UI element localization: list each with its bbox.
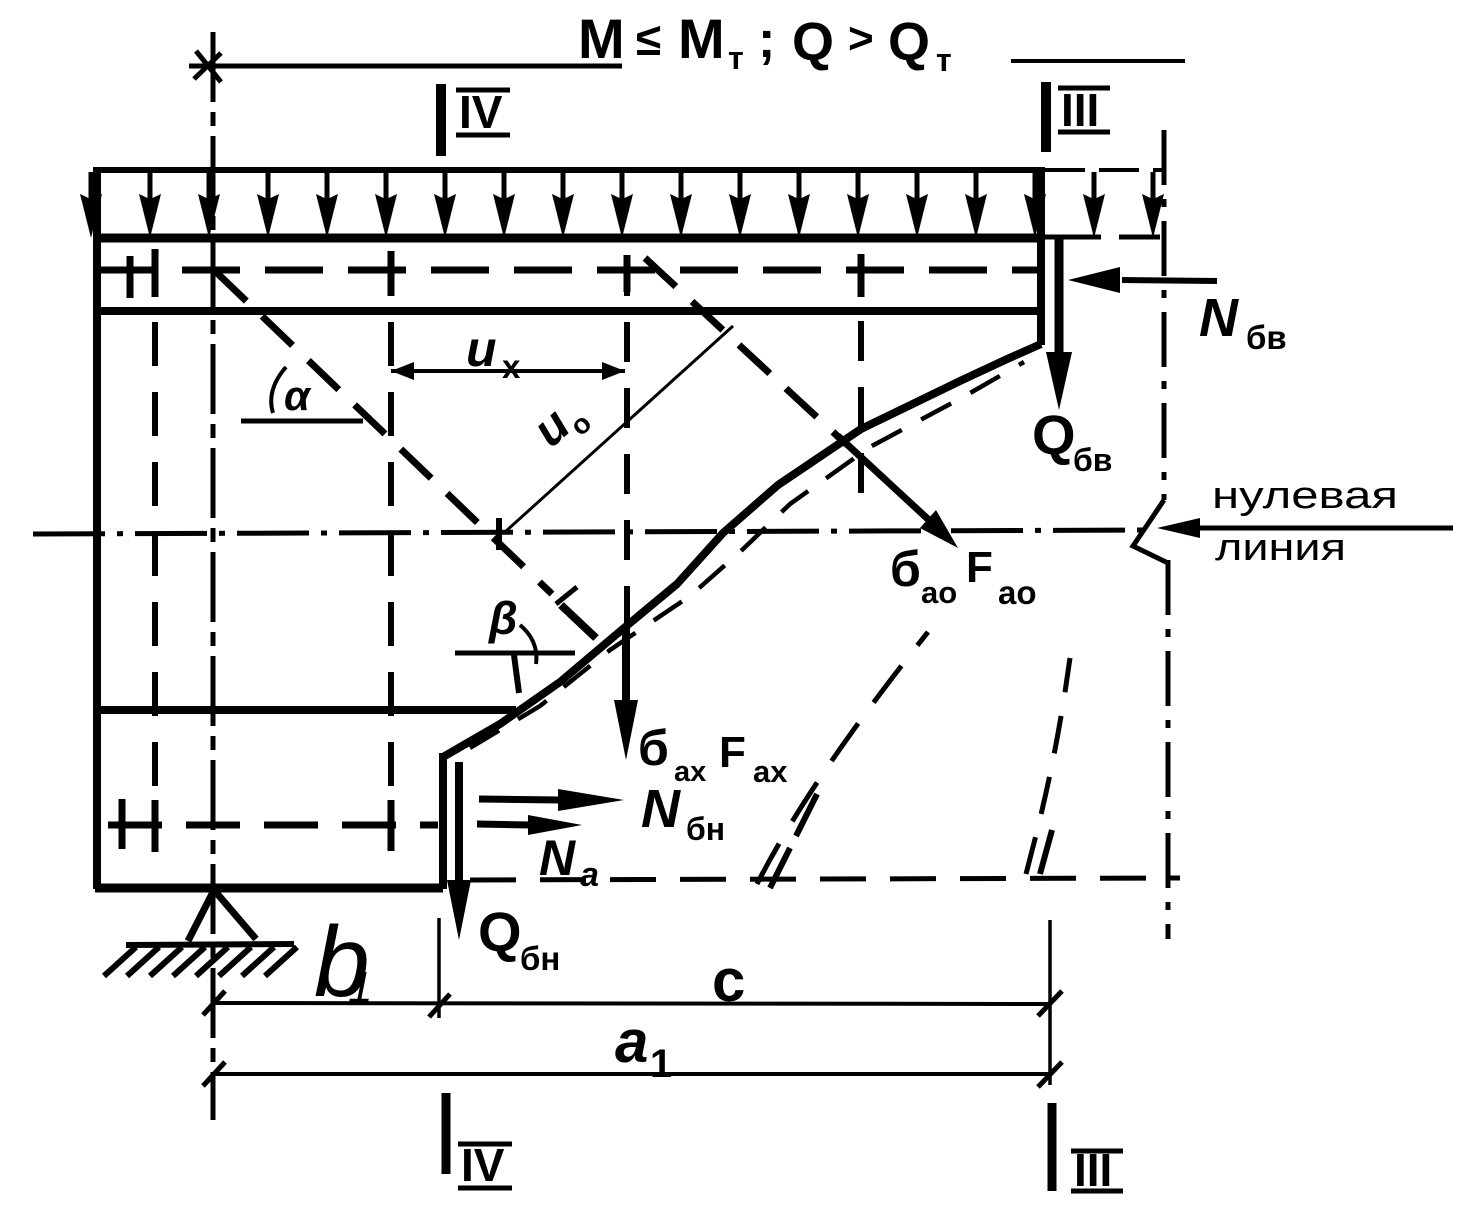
svg-text:β: β	[488, 592, 518, 644]
svg-text:M: M	[578, 7, 625, 70]
angle alpha: horizontal reference line	[241, 419, 363, 424]
load arrow 12	[729, 172, 751, 238]
svg-text:u: u	[466, 321, 497, 377]
stirrup tick on bottom rebar x155	[152, 800, 159, 852]
label alpha	[284, 372, 312, 419]
label nulevaya liniya	[1212, 475, 1398, 569]
stirrup tick on rebar x861	[858, 254, 865, 297]
support triangle	[188, 890, 256, 941]
label beta	[488, 592, 518, 644]
bottom rebar anchor tick	[119, 799, 126, 849]
label v1	[314, 906, 372, 1018]
angle alpha: arc	[271, 367, 286, 413]
zero line right vertical dash-dot x1164	[1164, 130, 1168, 939]
load arrow 15	[906, 172, 928, 238]
load arrow 9	[552, 172, 574, 238]
svg-text:a: a	[615, 1008, 648, 1075]
u_x dimension line	[391, 369, 625, 373]
beam top face	[97, 234, 1041, 243]
distributed load top line	[93, 167, 1045, 173]
bent bar 2 dashed diagonal	[645, 258, 846, 444]
load arrow 19	[1142, 172, 1164, 238]
force N_bv arrow	[1122, 280, 1217, 281]
stirrup tick on rebar x155	[152, 249, 159, 297]
top dimension line left part	[207, 64, 622, 69]
label c	[712, 947, 745, 1014]
svg-text:б: б	[890, 541, 921, 597]
stirrup dashed vertical x627 upper part	[624, 256, 630, 628]
label Q_bv	[1032, 403, 1112, 478]
svg-text:т: т	[936, 42, 952, 78]
svg-text:≤: ≤	[636, 13, 661, 65]
svg-text:x: x	[502, 348, 521, 385]
beam left edge	[93, 167, 101, 889]
slash tick a1 left	[203, 1062, 225, 1086]
bottom flange top line	[97, 706, 516, 714]
support centerline dash-dot x213	[211, 32, 216, 1120]
slash tick v1 left	[203, 991, 225, 1015]
support ground line	[126, 944, 294, 945]
bent bar 1 solid end segment	[561, 605, 596, 638]
section III top: bar	[1041, 82, 1051, 152]
svg-text:бв: бв	[1246, 319, 1287, 356]
load arrow 3	[198, 172, 220, 238]
stirrup dashed vertical x155	[152, 252, 158, 852]
beam right edge	[1037, 167, 1045, 345]
lower dashed crack curve 2 second lip	[1040, 830, 1052, 874]
star marker at support centerline top	[189, 51, 227, 82]
bent bar 1 end tick	[556, 587, 577, 604]
svg-text:б: б	[638, 720, 669, 776]
stirrup dashed vertical x391	[388, 252, 394, 850]
distributed load arrows	[80, 172, 1164, 238]
bottom line of top flange	[97, 307, 1041, 315]
force Q_bv arrow	[1055, 239, 1064, 360]
svg-text:N: N	[641, 779, 681, 839]
section III bottom: bar	[1048, 1103, 1057, 1191]
svg-text:IV: IV	[459, 86, 503, 138]
angle beta: arc	[520, 625, 536, 664]
formula M<=Mt ; Q>Qt	[578, 7, 952, 78]
label u_x	[466, 321, 521, 385]
dimension boundary x439	[437, 918, 441, 1018]
load arrow 16	[965, 172, 987, 238]
svg-text:M: M	[678, 7, 725, 70]
slash tick at x439	[429, 994, 450, 1017]
svg-text:т: т	[728, 40, 744, 76]
svg-text:III: III	[1061, 84, 1099, 136]
force sigma_ax F_ax arrow (stirrup force)	[622, 628, 630, 708]
crack parallel dashed lip	[470, 362, 1024, 748]
svg-text:Q: Q	[792, 12, 834, 72]
inclined crack main line	[443, 344, 1041, 757]
svg-text:бв: бв	[1073, 442, 1112, 478]
load arrow 17	[1024, 172, 1046, 238]
svg-text:IV: IV	[461, 1139, 505, 1191]
label a1	[615, 1008, 672, 1086]
svg-text:Q: Q	[478, 900, 522, 963]
load arrow 13	[788, 172, 810, 238]
stirrup tick on rebar x391	[388, 251, 395, 296]
load arrow 11	[670, 172, 692, 238]
svg-text:ах: ах	[753, 754, 788, 789]
section IV top: label	[459, 86, 503, 138]
svg-text:Q: Q	[1032, 403, 1076, 466]
slash tick c right	[1038, 991, 1062, 1016]
svg-text:нулевая: нулевая	[1212, 475, 1398, 517]
load arrow 1	[80, 172, 102, 238]
zero line dash-dot	[33, 530, 1148, 534]
svg-text:ао: ао	[921, 575, 957, 610]
svg-text:ао: ао	[998, 574, 1037, 611]
support hatching	[104, 947, 297, 976]
svg-text:бн: бн	[686, 811, 725, 847]
u_o thin line	[505, 326, 733, 532]
tick on zero line at bar crossing	[496, 518, 502, 550]
svg-text:линия: линия	[1215, 527, 1346, 569]
svg-text:c: c	[712, 947, 745, 1014]
svg-text:;: ;	[758, 11, 775, 69]
svg-text:Q: Q	[888, 12, 930, 72]
load arrow 4	[257, 172, 279, 238]
svg-text:а: а	[580, 856, 599, 894]
force Q_bn arrow	[455, 762, 463, 890]
beam step vertical edge	[439, 753, 447, 889]
section IV bottom: label	[461, 1139, 505, 1191]
section IV top: bar	[436, 84, 446, 156]
stirrup tick on bottom rebar x391	[388, 800, 395, 851]
svg-text:>: >	[848, 14, 874, 63]
zero line leader arrow	[1157, 518, 1200, 538]
section III bottom: label	[1074, 1144, 1112, 1196]
section III top: label	[1061, 84, 1099, 136]
dimension boundary x1050	[1048, 920, 1052, 1085]
dimension line a1	[213, 1072, 1050, 1076]
section IV bottom: bar	[442, 1093, 451, 1174]
svg-text:F: F	[719, 728, 746, 777]
zero line break zigzag	[1133, 500, 1168, 563]
angle beta: horizontal reference line	[455, 651, 575, 656]
label sigma_ax F_ax	[638, 720, 788, 789]
dimension line v1+c	[213, 1003, 1050, 1004]
dashed line at N_a level	[470, 878, 1180, 880]
load arrow 2	[139, 172, 161, 238]
force sigma_ao F_ao arrow	[838, 436, 930, 521]
force N_bn arrow	[479, 799, 560, 800]
label u_o (rotated)	[523, 386, 597, 461]
beam bottom face	[95, 884, 443, 893]
label N_bv	[1199, 288, 1287, 356]
top rebar dashed line	[99, 267, 1041, 274]
label sigma_ao F_ao	[890, 541, 1037, 611]
svg-text:α: α	[284, 372, 312, 419]
svg-text:N: N	[1199, 288, 1239, 348]
load arrow 10	[611, 172, 633, 238]
svg-text:бн: бн	[520, 940, 560, 977]
label Q_bn	[478, 900, 560, 977]
load arrow 7	[434, 172, 456, 238]
lower dashed crack curve 1	[757, 632, 928, 884]
top dimension line right part	[1011, 59, 1185, 63]
stirrup tick on rebar x627	[624, 255, 631, 292]
top rebar anchor tick	[127, 256, 134, 298]
load arrow 14	[847, 172, 869, 238]
slash tick a1 right	[1038, 1062, 1062, 1087]
load arrow 18	[1083, 172, 1105, 238]
lower dashed crack curve 1 second lip	[770, 794, 817, 888]
label N_a	[539, 830, 599, 894]
label N_bn	[641, 779, 725, 847]
load arrow 5	[316, 172, 338, 238]
lower dashed crack curve 2	[1026, 658, 1070, 874]
svg-text:F: F	[966, 543, 993, 592]
stirrup dashed vertical x861	[858, 255, 864, 500]
load arrow 6	[375, 172, 397, 238]
force N_a arrow	[477, 824, 530, 825]
load arrow 8	[493, 172, 515, 238]
svg-text:1: 1	[650, 1042, 672, 1086]
bottom rebar dashed line	[108, 822, 438, 829]
bent bar 1 dashed diagonal	[216, 272, 552, 594]
